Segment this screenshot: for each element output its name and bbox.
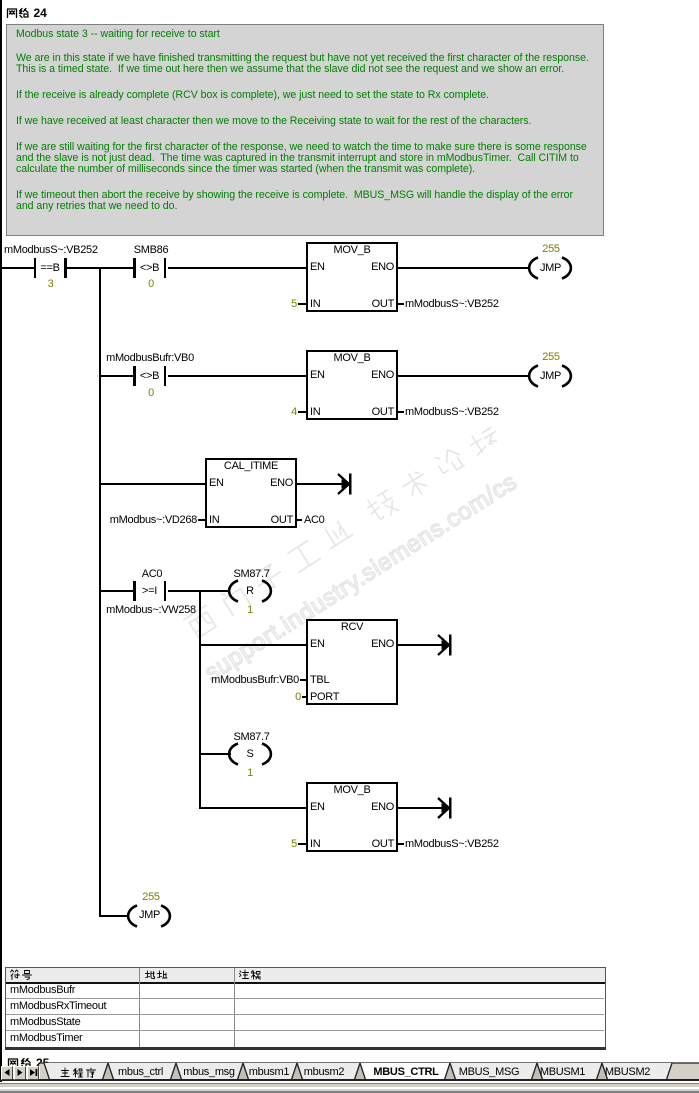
wire contact to MOV_B rung2 <box>168 375 307 377</box>
operand OUT mModbusS~:VB252 <box>398 303 404 305</box>
window left border <box>0 0 2 1082</box>
open branch arrow rung4 RCV <box>437 634 453 656</box>
coil JMP 255 rung1 <box>527 256 573 280</box>
value 5 pin IN <box>291 839 297 850</box>
wire contact to R coil <box>168 590 231 592</box>
operand mModbus~:VW258 <box>106 605 196 616</box>
tab MBUSM1 <box>540 1067 585 1078</box>
wire contact1 to contact2 <box>67 267 134 269</box>
coil R coil SM87.7 <box>227 579 273 603</box>
network comment box <box>6 24 604 236</box>
network 24 title <box>6 7 18 19</box>
contact SMB86 <>B 0 <box>133 258 136 278</box>
clipped network 25 title <box>7 1057 87 1067</box>
operand OUT AC0 <box>297 519 302 521</box>
contact mModbusBufr:VB0 <>B 0 <box>133 366 136 386</box>
tab 主程序 <box>59 1067 71 1079</box>
tab bar band <box>40 1063 699 1079</box>
value 0 <box>148 279 154 290</box>
function block MOV_B U1 <box>306 242 398 312</box>
label mModbusBufr:VB0 <box>106 353 194 364</box>
wire rung2 branch to contact <box>99 375 133 377</box>
value 5 pin IN <box>291 299 297 310</box>
value 255 <box>542 244 559 255</box>
tab polygons <box>0 1062 699 1082</box>
coil JMP 255 rung5 <box>126 904 172 928</box>
table header 符号 地址 注释 <box>9 969 21 981</box>
bottom frame strips <box>0 1083 699 1084</box>
tab nav buttons <box>1 1066 13 1080</box>
wire branch2 to RCV <box>199 644 306 646</box>
wire RCV ENO to arrow <box>398 644 449 646</box>
wire rung1 left rail to contact <box>0 267 34 269</box>
operand TBL mModbusBufr:VB0 <box>211 675 299 686</box>
watermark siemens forum <box>177 338 667 698</box>
wire sub branch x199 <box>199 591 201 808</box>
tab mbusm2 <box>304 1067 344 1078</box>
operand IN mModbus~:VD268 <box>110 515 197 526</box>
label mModbusS~:VB252 <box>4 245 98 256</box>
symbol table <box>5 967 606 1048</box>
operand OUT mModbusS~:VB252 <box>398 843 404 845</box>
tab MBUSM2 <box>605 1067 650 1078</box>
wire ENO to JMP coil <box>398 267 530 269</box>
value 255 <box>142 892 159 903</box>
value 4 pin IN <box>291 407 297 418</box>
contact AC0 >=I mModbus~:VW258 <box>133 581 136 601</box>
tab mbus_ctrl <box>118 1067 163 1078</box>
table row mModbusTimer <box>10 1033 82 1044</box>
contact mModbusS~:VB252 ==B 3 <box>34 258 37 278</box>
value 1 <box>247 768 253 779</box>
label SMB86 <box>134 245 169 256</box>
value 0 <box>148 388 154 399</box>
wire branch to JMP <box>99 915 129 917</box>
table row mModbusState <box>10 1017 80 1028</box>
tab mbusm1 <box>249 1067 289 1078</box>
wire branch2 to MOV_B3 <box>199 807 306 809</box>
wire branch to AC0 contact <box>99 590 133 592</box>
tab bottom line <box>0 1079 699 1081</box>
coil JMP 255 rung2 <box>527 364 573 388</box>
label SM87.7 <box>233 569 269 580</box>
table row mModbusBufr <box>10 985 75 996</box>
function block CAL_ITIME U3 <box>205 458 297 528</box>
label AC0 <box>142 569 163 580</box>
wire branch2 to S coil <box>199 753 231 755</box>
function block RCV U4 <box>306 619 398 705</box>
function block MOV_B U2 <box>306 350 398 420</box>
wire ENO to arrow <box>297 483 349 485</box>
coil S coil SM87.7 <box>227 742 273 766</box>
tab MBUS_MSG <box>459 1067 520 1078</box>
function block MOV_B U5 <box>306 782 398 852</box>
wire main vertical branch x99 <box>99 268 101 917</box>
tab mbus_msg <box>183 1067 234 1078</box>
value 1 <box>247 605 253 616</box>
table row mModbusRxTimeout <box>10 1001 106 1012</box>
wire branch to CAL_ITIME <box>99 483 205 485</box>
value 255 <box>542 352 559 363</box>
open branch arrow rung3 <box>337 473 353 495</box>
tab MBUS_CTRL <box>373 1067 438 1078</box>
value 0 pin PORT <box>295 692 301 703</box>
wire ENO to JMP coil rung2 <box>398 375 530 377</box>
label SM87.7 <box>233 732 269 743</box>
value 3 <box>48 279 54 290</box>
wire contact2 to MOV_B <box>168 267 307 269</box>
operand OUT mModbusS~:VB252 <box>398 411 404 413</box>
wire MOV_B3 ENO to arrow <box>398 807 449 809</box>
open branch arrow rung4 MOV_B <box>437 797 453 819</box>
